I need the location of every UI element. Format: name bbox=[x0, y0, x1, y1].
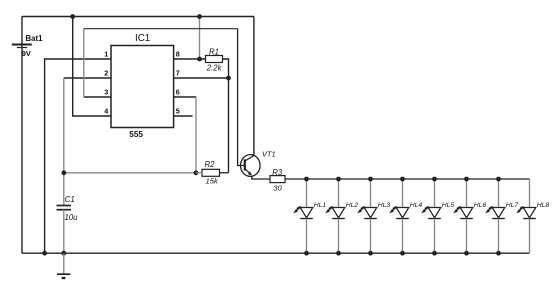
LED HL1 emission arrows bbox=[293, 206, 300, 213]
svg-text:HL7: HL7 bbox=[506, 202, 519, 209]
LED HL3 cathode wire bbox=[370, 219, 372, 254]
wire pin3 loop down to base bbox=[238, 29, 244, 166]
junction pin7 bbox=[226, 76, 231, 81]
LED HL6 emission arrows bbox=[453, 206, 460, 213]
wire node pins2-6 horizontal bbox=[64, 172, 196, 174]
svg-text:10u: 10u bbox=[65, 213, 79, 222]
LED HL8 anode wire bbox=[529, 179, 531, 208]
wire R3 to LED rail bbox=[285, 178, 307, 180]
svg-text:2: 2 bbox=[104, 69, 108, 78]
LED HL2 bbox=[332, 208, 345, 219]
LED HL3 anode wire bbox=[370, 179, 372, 208]
LED HL6 anode wire bbox=[466, 179, 468, 208]
svg-text:6: 6 bbox=[176, 88, 180, 97]
junction top of HL7 bbox=[496, 177, 501, 182]
svg-text:C1: C1 bbox=[65, 195, 75, 204]
svg-text:7: 7 bbox=[176, 69, 180, 78]
wire R2 right bbox=[220, 172, 229, 174]
junction pin8-rail-R1 bbox=[197, 57, 202, 62]
LED HL1 bbox=[300, 208, 313, 219]
svg-text:2.2k: 2.2k bbox=[206, 63, 223, 72]
IC IC1 555-timer box bbox=[111, 46, 174, 128]
wire pin7 bbox=[174, 77, 229, 79]
svg-text:555: 555 bbox=[129, 130, 143, 139]
LED HL5 emission arrows bbox=[421, 206, 428, 213]
junction bottom of HL3 bbox=[368, 251, 373, 256]
wire pin2/C1 vertical bbox=[63, 78, 65, 206]
LED HL7 bbox=[492, 208, 505, 219]
wire pin3 riser bbox=[83, 29, 85, 97]
wire C1 to ground rail bbox=[63, 210, 65, 254]
LED HL7 anode wire bbox=[498, 179, 500, 208]
resistor R2 bbox=[202, 169, 220, 176]
LED HL7 cathode wire bbox=[498, 219, 500, 254]
svg-text:3: 3 bbox=[104, 88, 108, 97]
junction bottom of HL7 bbox=[496, 251, 501, 256]
wire pin3 loop top bbox=[84, 28, 238, 30]
wire pin8 to R1 bbox=[174, 58, 206, 60]
wire R2 left bbox=[196, 172, 202, 174]
LED HL8 bbox=[523, 208, 536, 219]
wire top +9V rail bbox=[22, 16, 254, 18]
svg-text:VT1: VT1 bbox=[262, 150, 276, 159]
svg-text:HL2: HL2 bbox=[346, 202, 359, 209]
svg-text:HL6: HL6 bbox=[474, 202, 487, 209]
resistor R1 bbox=[206, 56, 223, 63]
wire pin8 to +9V rail bbox=[199, 17, 201, 60]
svg-text:Bat1: Bat1 bbox=[26, 34, 44, 43]
wire pin6 down bbox=[195, 97, 197, 173]
LED HL4 bbox=[396, 208, 409, 219]
LED HL4 anode wire bbox=[402, 179, 404, 208]
svg-text:30: 30 bbox=[273, 184, 282, 193]
wire battery left vertical bbox=[21, 17, 23, 254]
junction top of HL3 bbox=[368, 177, 373, 182]
wire collector to +9V rail bbox=[253, 17, 255, 156]
junction bottom of HL4 bbox=[400, 251, 405, 256]
junction C1-ground bbox=[61, 251, 66, 256]
junction rail-pin8 bbox=[197, 14, 202, 19]
junction pins2-6 left bbox=[61, 170, 66, 175]
wire emitter to R3 bbox=[252, 176, 270, 179]
wire pin1 to ground bbox=[45, 59, 111, 253]
LED HL4 cathode wire bbox=[402, 219, 404, 254]
LED HL2 cathode wire bbox=[338, 219, 340, 254]
transistor VT1 bbox=[241, 155, 261, 177]
junction bottom of HL2 bbox=[336, 251, 341, 256]
svg-text:HL4: HL4 bbox=[410, 202, 423, 209]
wire pin3 horizontal bbox=[84, 96, 111, 98]
junction pins2-6 right bbox=[194, 170, 199, 175]
svg-text:HL5: HL5 bbox=[442, 202, 455, 209]
wire bottom ground rail bbox=[22, 252, 530, 254]
LED HL8 cathode wire bbox=[529, 219, 531, 254]
junction top of HL6 bbox=[464, 177, 469, 182]
LED HL1 cathode wire bbox=[306, 219, 308, 254]
resistor R3 bbox=[270, 176, 285, 183]
junction bottom of HL5 bbox=[432, 251, 437, 256]
LED HL5 cathode wire bbox=[434, 219, 436, 254]
wire pin5 stub bbox=[174, 115, 193, 117]
svg-text:8: 8 bbox=[176, 50, 180, 59]
battery Bat1 bbox=[12, 45, 32, 48]
svg-text:4: 4 bbox=[104, 107, 108, 116]
LED HL7 emission arrows bbox=[485, 206, 492, 213]
ground stub bbox=[63, 253, 65, 274]
ground symbol bbox=[57, 274, 70, 278]
wire pin6 horizontal bbox=[174, 96, 196, 98]
svg-text:R1: R1 bbox=[209, 47, 219, 56]
junction pin1-ground bbox=[42, 251, 47, 256]
wire LED anode rail bbox=[307, 178, 530, 180]
LED HL3 emission arrows bbox=[357, 206, 364, 213]
LED HL2 emission arrows bbox=[325, 206, 332, 213]
svg-text:1: 1 bbox=[104, 50, 108, 59]
LED HL3 bbox=[364, 208, 377, 219]
wire R1 right down to pin7/R2 bbox=[223, 59, 229, 173]
junction top of HL4 bbox=[400, 177, 405, 182]
capacitor C1 bbox=[57, 206, 72, 210]
junction top of HL5 bbox=[432, 177, 437, 182]
LED HL4 emission arrows bbox=[389, 206, 396, 213]
wire pin4 to +9V rail bbox=[73, 17, 111, 117]
junction bottom of HL1 bbox=[304, 251, 309, 256]
svg-text:IC1: IC1 bbox=[135, 33, 150, 44]
junction top of HL2 bbox=[336, 177, 341, 182]
LED HL2 anode wire bbox=[338, 179, 340, 208]
LED HL6 bbox=[460, 208, 473, 219]
svg-text:R3: R3 bbox=[272, 168, 283, 177]
junction rail-pin4 bbox=[70, 14, 75, 19]
svg-text:HL1: HL1 bbox=[314, 202, 327, 209]
LED HL8 emission arrows bbox=[516, 206, 523, 213]
svg-text:15k: 15k bbox=[206, 176, 219, 185]
LED HL6 cathode wire bbox=[466, 219, 468, 254]
LED HL5 bbox=[428, 208, 441, 219]
LED HL5 anode wire bbox=[434, 179, 436, 208]
svg-text:5: 5 bbox=[176, 107, 180, 116]
wire pin2 horizontal bbox=[64, 77, 111, 79]
svg-text:R2: R2 bbox=[205, 160, 216, 169]
svg-text:HL3: HL3 bbox=[378, 202, 391, 209]
junction top of HL1 bbox=[304, 177, 309, 182]
LED HL1 anode wire bbox=[306, 179, 308, 208]
svg-text:HL8: HL8 bbox=[537, 202, 550, 209]
svg-text:9V: 9V bbox=[22, 49, 31, 58]
junction bottom of HL6 bbox=[464, 251, 469, 256]
